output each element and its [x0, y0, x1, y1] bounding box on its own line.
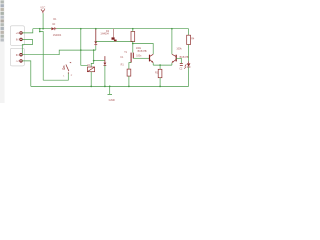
wire emitter link	[153, 64, 172, 66]
junction coil rail	[90, 86, 92, 88]
component U1 tiny inline part	[112, 29, 117, 42]
wire pin4 stub	[22, 61, 30, 87]
capacitor C1	[131, 53, 133, 63]
wire to diode D4	[94, 60, 105, 62]
wire T1 emitter down	[152, 63, 154, 65]
wire bottom rail	[31, 85, 189, 87]
junction jog top	[39, 28, 41, 30]
svg-text:1N: 1N	[52, 23, 55, 26]
pin X1-1	[20, 32, 22, 34]
wire D3 bottom stub	[95, 46, 97, 50]
wire R3 bottom	[159, 78, 161, 87]
svg-text:1N4004: 1N4004	[100, 33, 109, 36]
transistor T2	[172, 54, 177, 63]
junction VCC-rail	[42, 28, 44, 30]
svg-text:BC547B: BC547B	[138, 50, 147, 53]
svg-text:100k: 100k	[176, 48, 182, 51]
junction rail x80.8	[80, 28, 82, 30]
wire VCC drop	[42, 13, 44, 29]
wire pin2 U-link	[22, 39, 32, 53]
wire R2 bottom lead	[132, 42, 134, 53]
switch S1	[64, 62, 71, 73]
ground tap wire	[109, 86, 111, 94]
junction D4 rail	[104, 86, 106, 88]
connector X2 outline	[10, 48, 24, 66]
junction rail x132.8	[132, 28, 134, 30]
wire R3 top	[159, 65, 161, 69]
wire R2 top stub	[132, 29, 134, 32]
wire relay coil top drop	[91, 50, 94, 67]
resistor R3	[158, 69, 162, 77]
ground symbol	[108, 93, 113, 95]
svg-text:1N4004: 1N4004	[53, 34, 62, 37]
diode D4 vertical at relay	[104, 56, 107, 65]
junction x93.7 y60.65	[93, 60, 95, 62]
wire R4 bottom	[188, 45, 190, 62]
pin X1-2	[20, 38, 22, 40]
resistor R2	[131, 32, 135, 42]
junction jog bottom	[39, 31, 41, 33]
wire T2 collector	[171, 29, 173, 55]
junction gnd rail	[109, 86, 111, 88]
svg-text:K1: K1	[87, 63, 91, 67]
toolbar icons	[1, 0, 4, 41]
LED LED1	[184, 61, 190, 69]
wire T2 emitter down	[171, 63, 173, 65]
svg-text:100n: 100n	[136, 56, 142, 58]
svg-text:IN: IN	[16, 53, 19, 57]
svg-text:-U: -U	[16, 59, 19, 63]
svg-text:+U: +U	[16, 31, 20, 35]
wire R4 top corner	[188, 29, 190, 36]
svg-text:IN: IN	[16, 38, 19, 42]
connector X1 outline	[10, 26, 24, 46]
resistor R4	[187, 35, 191, 44]
resistor R1	[127, 69, 131, 76]
wire pin1 stub	[22, 29, 32, 33]
junction rail T2 collector	[171, 28, 173, 30]
wire coil bottom to rail	[90, 72, 92, 87]
wire relay feed drop	[81, 29, 88, 66]
wire R1 bottom	[128, 76, 130, 86]
diode D3 vertical	[94, 29, 97, 46]
wire to switch bottom	[43, 73, 68, 81]
wire jog stub	[40, 29, 43, 80]
relay K1 coil	[87, 67, 94, 72]
wire pin3 net	[22, 50, 95, 55]
pin X2-2	[20, 60, 22, 62]
transistor T1	[150, 54, 154, 63]
toolbar strip background	[0, 0, 5, 103]
wire cap to base T1	[133, 57, 149, 59]
junction rail x95.8	[95, 28, 97, 30]
wire top rail main segment	[56, 28, 188, 30]
svg-text:VCC: VCC	[40, 7, 45, 9]
junction net cross x80.8	[80, 49, 82, 51]
wire mid horizontal y41.4	[96, 40, 133, 42]
pin X2-1	[20, 54, 22, 56]
wire collector link T1	[133, 44, 153, 55]
junction R2 node	[132, 43, 134, 45]
junction emitter R3	[159, 64, 161, 66]
wire T2 base link	[176, 58, 181, 63]
junction R1 rail	[128, 86, 130, 88]
wire LED bottom	[188, 67, 190, 86]
junction net cross x93.7	[93, 49, 95, 51]
junction R3 rail	[159, 86, 161, 88]
wire D4 bottom to rail	[104, 65, 106, 86]
diode D1 inline	[51, 27, 56, 30]
wire top rail left segment	[33, 28, 52, 30]
wire cap left down jog	[129, 63, 131, 70]
svg-text:GND: GND	[109, 98, 115, 102]
capacitor C2	[180, 64, 183, 66]
power symbol VCC	[41, 9, 45, 13]
